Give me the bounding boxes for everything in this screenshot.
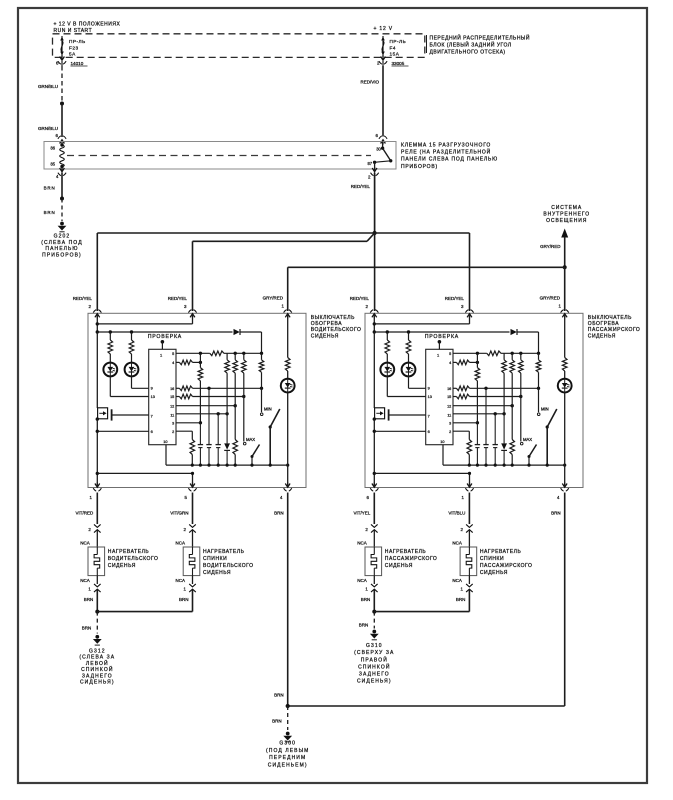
svg-text:ПРАВОЙ: ПРАВОЙ [361,655,388,663]
svg-text:ПАССАЖИРСКОГО: ПАССАЖИРСКОГО [480,563,533,569]
svg-text:ПР-ЛЬ: ПР-ЛЬ [390,39,407,44]
svg-text:СИДЕНЬЯ: СИДЕНЬЯ [480,570,508,576]
svg-text:VIT/YEL: VIT/YEL [354,511,371,516]
svg-text:F4: F4 [390,45,396,50]
passenger control IC (ПРОВЕРКА) [425,334,459,445]
svg-text:СИДЕНЬЯ: СИДЕНЬЯ [203,570,231,576]
svg-text:GRY/RED: GRY/RED [540,244,561,249]
passenger IC pin 5 line with resistor R3 [453,351,540,356]
svg-text:СПИНКИ: СПИНКИ [480,556,504,562]
label NCA [80,540,90,545]
svg-text:10: 10 [163,440,167,444]
svg-text:VIT/RED: VIT/RED [76,511,95,516]
passenger LED3 illumination [558,379,572,393]
svg-text:СПИНКОЙ: СПИНКОЙ [81,665,113,673]
svg-text:15: 15 [447,395,451,399]
passenger LED1 indicator [380,363,394,377]
wire GRN/BLU dashed from fuse F23 [38,66,62,104]
svg-text:NCA: NCA [357,540,367,545]
svg-text:BRN: BRN [361,597,371,602]
passenger IC pin 6 wire [374,430,425,432]
svg-text:5A: 5A [69,52,76,57]
driver output link wire [97,472,194,488]
wire GRY/RED bus [288,267,565,311]
svg-text:ОСВЕЩЕНИЯ: ОСВЕЩЕНИЯ [546,218,587,224]
svg-text:14010: 14010 [71,61,84,66]
passenger seat heating switch box [365,313,583,487]
passenger switch input wire labels [350,295,562,309]
passenger LED3 wire to ground rail and pin 4 [564,393,566,488]
passenger GRY/RED input resistor R15 [562,313,567,378]
label NCA [357,540,367,545]
driver internal supply rail wires [96,313,233,333]
svg-text:СПИНКИ: СПИНКИ [203,556,227,562]
driver output rail below transistor [96,417,99,487]
svg-text:11: 11 [170,413,174,417]
passenger transistor Q output driver [374,332,388,421]
svg-text:ЛЕВОЙ: ЛЕВОЙ [86,659,109,667]
svg-text:86: 86 [50,145,55,150]
splice label 14010 [71,61,88,66]
svg-text:КЛЕММА 15 РАЗГРУЗОЧНОГО: КЛЕММА 15 РАЗГРУЗОЧНОГО [401,142,491,148]
svg-text:16: 16 [170,387,174,391]
connector pin 2 below fuse F4 [377,56,387,67]
driver IC pin 5 line with resistor R3 [176,351,263,356]
wire RED/VIO fuse F4 to relay 30 [360,66,383,137]
fuse box (front distribution block) dashed outline [53,34,425,58]
svg-text:BRN: BRN [44,210,56,215]
svg-text:СПИНКОЙ: СПИНКОЙ [358,662,390,670]
driver capacitor C2 [206,388,211,465]
driver resistor R12 column [259,353,264,388]
svg-text:ПЕРЕДНИЙ РАСПРЕДЕЛИТЕЛЬНЫЙ: ПЕРЕДНИЙ РАСПРЕДЕЛИТЕЛЬНЫЙ [430,33,530,41]
svg-text:RUN И START: RUN И START [54,28,93,34]
inline connector 2 [184,524,196,547]
driver IC pin 15 line with resistor R7 [176,394,246,399]
passenger internal ground rail [443,464,566,467]
passenger resistor R14 to ground rail [510,406,515,465]
svg-text:РЕЛЕ (НА РАЗДЕЛИТЕЛЬНОЙ: РЕЛЕ (НА РАЗДЕЛИТЕЛЬНОЙ [401,148,491,156]
driver LED1 indicator [103,363,117,377]
passenger resistor R2 for LED2 [406,332,411,363]
svg-text:RED/YEL: RED/YEL [445,296,465,301]
passenger diode D1 on supply rail [511,329,539,353]
heater label [385,549,438,569]
driver GRY/RED input resistor R15 [285,313,290,378]
svg-text:BRN: BRN [551,511,561,516]
svg-text:BRN: BRN [84,597,94,602]
wire BRN below heater [179,597,189,602]
driver transistor Q output driver [97,332,111,421]
wire BRN below heater [361,597,371,602]
heater label [203,549,254,576]
svg-text:ДВИГАТЕЛЬНОГО ОТСЕКА): ДВИГАТЕЛЬНОГО ОТСЕКА) [430,50,506,56]
svg-text:ПРИБОРОВ): ПРИБОРОВ) [401,164,438,170]
passenger resistor R5 divider column [475,353,480,424]
driver resistor R1 for LED1 [108,332,113,363]
svg-text:ПАССАЖИРСКОГО: ПАССАЖИРСКОГО [385,556,438,562]
wire BRN passenger switch pin 4 [288,493,565,707]
svg-text:NCA: NCA [357,578,367,583]
passenger internal supply rail wires [373,313,510,333]
passenger MAX switch [520,437,536,465]
driver resistor R11 column [242,353,247,396]
svg-text:СИДЕНЬЯ: СИДЕНЬЯ [108,563,136,569]
passenger LED2 indicator [402,363,416,377]
passenger resistor R10 column [510,353,515,405]
svg-text:MAX: MAX [523,437,532,442]
svg-text:30: 30 [376,147,381,152]
svg-text:ВНУТРЕННЕГО: ВНУТРЕННЕГО [543,212,590,218]
driver IC pin 2 wire and resistor R8 [176,431,195,465]
driver resistor R9 column [225,353,230,414]
svg-text:НАГРЕВАТЕЛЬ: НАГРЕВАТЕЛЬ [203,549,245,555]
node splice BRN [60,197,64,201]
connector pin 2 below relay switch [368,167,379,179]
svg-text:BRN: BRN [272,718,282,723]
svg-text:BRN: BRN [359,623,369,628]
driver IC pin 4 line with resistor R4 [176,360,202,365]
inline connector 2 [365,524,377,547]
svg-text:ПРОВЕРКА: ПРОВЕРКА [148,334,182,340]
svg-text:NCA: NCA [176,578,186,583]
svg-text:NCA: NCA [452,540,462,545]
driver IC pin 10 wire to ground rail [165,445,167,465]
ground G202 [41,222,82,259]
connector pin 6 below fuse F23 [56,56,66,67]
driver IC pin 11 line [176,412,229,415]
svg-text:7: 7 [428,414,430,418]
svg-text:GRN/BLU: GRN/BLU [38,84,58,89]
wire RED/YEL branch to passenger switch pin 3 [375,233,470,311]
driver capacitor C3 [216,414,221,465]
driver IC pin 3 line [176,422,200,424]
wire BRN dashed to G312 [82,612,98,634]
interior lighting system arrow [540,205,590,267]
svg-text:G312: G312 [89,648,106,654]
svg-text:MAX: MAX [246,437,255,442]
passenger wire to MIN contact [538,388,540,412]
driver IC pin 12 line [176,404,237,407]
wire BRN below heater [84,597,94,602]
passenger zener diode D2 [501,414,507,465]
svg-text:ВОДИТЕЛЬСКОГО: ВОДИТЕЛЬСКОГО [203,563,254,569]
svg-text:11: 11 [447,413,451,417]
svg-text:13: 13 [428,395,432,399]
passenger IC pin 15 line with resistor R7 [453,394,523,399]
svg-text:NCA: NCA [452,578,462,583]
driver switch input wire labels [73,295,285,309]
svg-text:НАГРЕВАТЕЛЬ: НАГРЕВАТЕЛЬ [385,549,427,555]
node heater ground junction right [372,610,469,614]
svg-text:(СЛЕВА ЗА: (СЛЕВА ЗА [79,655,115,661]
inline connector 1 [88,576,100,612]
passenger IC pin 2 wire and resistor R8 [453,431,472,465]
svg-text:BRN: BRN [82,626,92,631]
passenger switch title label [588,315,641,340]
svg-text:GRY/RED: GRY/RED [263,295,284,300]
svg-text:НАГРЕВАТЕЛЬ: НАГРЕВАТЕЛЬ [108,549,150,555]
driver resistor R10 column [233,353,238,405]
svg-text:13: 13 [151,395,155,399]
svg-text:BRN: BRN [274,693,284,698]
svg-text:MIN: MIN [264,407,272,412]
heater element НАГРЕВАТЕЛЬ [365,547,382,576]
svg-text:RED/YEL: RED/YEL [168,296,188,301]
wire RED/YEL relay to junction [351,173,375,234]
svg-text:85: 85 [50,162,55,167]
driver resistor R2 for LED2 [129,332,134,363]
driver IC pin 6 wire [97,430,148,432]
svg-text:ЗАДНЕГО: ЗАДНЕГО [359,672,390,678]
wire GRN/BLU to relay coil 86 [38,104,62,138]
driver zener diode D2 [224,414,230,465]
passenger switch top connectors [370,310,569,319]
inline connector 2 [88,524,100,547]
svg-text:3: 3 [172,422,174,426]
svg-text:БЛОК (ЛЕВЫЙ ЗАДНИЙ УГОЛ: БЛОК (ЛЕВЫЙ ЗАДНИЙ УГОЛ [430,40,512,48]
svg-text:СИДЕНЬЕМ): СИДЕНЬЕМ) [268,763,308,769]
node RED/YEL junction [373,231,377,235]
driver switch title label [311,315,362,340]
passenger LED2 wire to IC pin 9 [409,376,426,388]
svg-text:VIT/GRN: VIT/GRN [170,511,188,516]
driver LED3 wire to ground rail and pin 4 [287,393,289,488]
wire BRN driver switch pin 4 to G300 [274,493,288,707]
svg-text:F23: F23 [69,45,79,50]
driver LED2 wire to IC pin 9 [132,376,149,388]
svg-text:ПР-ЛЬ: ПР-ЛЬ [69,39,86,44]
passenger IC pin 12 line [453,404,514,407]
heater element НАГРЕВАТЕЛЬ [460,547,477,576]
svg-text:+ 12 V: + 12 V [374,26,393,32]
svg-text:ВЫКЛЮЧАТЕЛЬ: ВЫКЛЮЧАТЕЛЬ [311,315,355,321]
svg-text:ЗАДНЕГО: ЗАДНЕГО [82,673,113,679]
svg-text:MIN: MIN [541,407,549,412]
svg-text:ВОДИТЕЛЬСКОГО: ВОДИТЕЛЬСКОГО [311,327,362,333]
svg-text:15: 15 [170,395,174,399]
node splice GRN/BLU [60,102,64,106]
svg-text:G300: G300 [279,741,296,747]
svg-text:NCA: NCA [176,540,186,545]
svg-text:3: 3 [449,422,451,426]
svg-text:6: 6 [428,430,430,434]
wire BRN relay coil to ground [44,173,62,199]
driver control IC (ПРОВЕРКА) [148,334,182,445]
wire VIT/BLU to heater [448,493,469,525]
svg-text:СИДЕНЬЯ: СИДЕНЬЯ [311,333,339,339]
svg-text:СИДЕНЬЯ): СИДЕНЬЯ) [357,679,392,685]
passenger LED1 wire to IC pin 13 [387,376,425,396]
svg-text:ВЫКЛЮЧАТЕЛЬ: ВЫКЛЮЧАТЕЛЬ [588,315,632,321]
node G300 junction [286,704,290,708]
wire RED/YEL branch to driver switch pin 2 [97,233,374,311]
svg-text:9: 9 [428,387,430,391]
label NCA [452,578,462,583]
passenger MIN switch [537,407,556,465]
driver diode D1 on supply rail [234,329,262,353]
svg-text:2: 2 [172,430,174,434]
passenger capacitor C1 [475,423,480,465]
passenger resistor R11 column [519,353,524,396]
svg-text:16: 16 [447,387,451,391]
label NCA [452,540,462,545]
driver LED2 indicator [125,363,139,377]
passenger resistor R9 column [502,353,507,414]
svg-text:33005: 33005 [392,61,405,66]
relay K (terminal 15 unloader relay) box [44,142,396,170]
label NCA [176,540,186,545]
svg-text:5: 5 [449,352,451,356]
svg-text:NCA: NCA [80,578,90,583]
svg-text:5: 5 [172,352,174,356]
svg-text:RED/YEL: RED/YEL [73,296,93,301]
driver capacitor C1 [198,423,203,465]
svg-text:G202: G202 [54,234,71,240]
fuse F23 5A [60,36,86,57]
connector pin 6 at relay coil top [56,133,67,145]
driver switch bottom pin numbers [90,495,284,500]
wire BRN below heater [456,597,466,602]
passenger IC pin 16 line with resistor R6 [453,386,540,391]
svg-text:15A: 15A [390,52,400,57]
svg-text:ПАССАЖИРСКОГО: ПАССАЖИРСКОГО [588,327,641,333]
ground G312 [79,635,115,686]
heater label [108,549,159,569]
heater element НАГРЕВАТЕЛЬ [88,547,105,576]
driver resistor R14 to ground rail [233,406,238,465]
ground G300 [266,732,309,769]
svg-text:(СЛЕВА ПОД: (СЛЕВА ПОД [41,240,82,246]
svg-text:ОБОГРЕВА: ОБОГРЕВА [311,321,342,327]
svg-text:BRN: BRN [179,597,189,602]
label NCA [176,578,186,583]
wire RED/YEL to passenger switch pin 2 [374,233,376,311]
passenger capacitor C3 [493,414,498,465]
svg-text:СИДЕНЬЯ: СИДЕНЬЯ [588,333,616,339]
connector pin 6 at relay top [376,133,388,145]
svg-text:12: 12 [447,404,451,408]
passenger IC pin 10 wire to ground rail [442,445,444,465]
svg-text:RED/YEL: RED/YEL [350,296,370,301]
node GRY/RED junction [563,265,567,269]
svg-text:10: 10 [440,440,444,444]
svg-text:GRY/RED: GRY/RED [540,295,561,300]
svg-text:BRN: BRN [456,597,466,602]
inline connector 1 [460,576,472,612]
node +12V right [374,26,393,32]
svg-text:(СВЕРХУ ЗА: (СВЕРХУ ЗА [354,650,394,656]
svg-text:СИДЕНЬЯ): СИДЕНЬЯ) [80,680,115,686]
connector pin 4 below relay coil [56,167,66,179]
svg-text:VIT/BLU: VIT/BLU [448,511,465,516]
svg-text:ПАНЕЛИ СЛЕВА ПОД ПАНЕЛЬЮ: ПАНЕЛИ СЛЕВА ПОД ПАНЕЛЬЮ [401,157,498,163]
svg-text:ПАНЕЛЬЮ: ПАНЕЛЬЮ [45,246,78,252]
wire VIT/YEL to heater [354,493,375,525]
driver IC pin 7 gate wire [112,414,149,416]
passenger resistor R13 to MAX contact [520,397,522,442]
node heater ground junction left [95,610,192,614]
wire BRN dashed to G310 [359,612,375,629]
wire BRN dashed to G202 [44,199,62,222]
svg-text:(ПОД ЛЕВЫМ: (ПОД ЛЕВЫМ [266,748,309,754]
node +12V RUN/START label [54,22,121,34]
driver internal ground rail [166,464,289,467]
splice label 33005 [392,61,409,66]
svg-text:6: 6 [151,430,153,434]
driver MAX switch [243,437,259,465]
driver resistor R13 to MAX contact [243,397,245,442]
svg-text:BRN: BRN [274,511,284,516]
driver seat heating switch box [88,313,306,487]
passenger output link wire [374,472,471,488]
driver MIN switch [260,407,279,465]
front distribution block label [427,33,530,55]
driver wire to MIN contact [261,388,263,412]
svg-text:GRN/BLU: GRN/BLU [38,126,58,131]
ground G310 [354,630,394,685]
passenger resistor R12 column [536,353,541,388]
svg-text:СИСТЕМА: СИСТЕМА [551,205,582,211]
fuse F4 15A [381,36,406,57]
driver switch bottom connectors [93,483,292,492]
svg-text:2: 2 [449,430,451,434]
passenger capacitor C2 [483,388,488,465]
passenger IC pin 3 line [453,422,477,424]
passenger IC pin 7 gate wire [389,414,426,416]
driver LED3 illumination [281,379,295,393]
wire BRN dashed to G300 [272,706,288,730]
passenger IC pin 4 line with resistor R4 [453,360,479,365]
passenger IC pin 11 line [453,412,506,415]
inline connector 2 [460,524,472,547]
passenger switch bottom pin numbers [367,495,561,500]
svg-text:СИДЕНЬЯ: СИДЕНЬЯ [385,563,413,569]
passenger switch bottom connectors [370,483,569,492]
svg-text:G310: G310 [366,643,383,649]
inline connector 1 [365,576,377,612]
passenger resistor R1 for LED1 [385,332,390,363]
svg-text:RED/VIO: RED/VIO [360,80,379,85]
svg-text:+ 12 V В ПОЛОЖЕНИЯХ: + 12 V В ПОЛОЖЕНИЯХ [54,22,121,28]
svg-text:4: 4 [172,361,174,365]
driver IC pin 16 line with resistor R6 [176,386,263,391]
label NCA [80,578,90,583]
svg-text:ПРИБОРОВ): ПРИБОРОВ) [42,253,82,259]
svg-text:ОБОГРЕВА: ОБОГРЕВА [588,321,619,327]
svg-text:4: 4 [449,361,451,365]
relay coil 86-85 [50,143,64,168]
svg-text:BRN: BRN [44,185,56,190]
relay switch 30-87 [367,142,392,170]
heater element НАГРЕВАТЕЛЬ [183,547,200,576]
svg-text:9: 9 [151,387,153,391]
driver switch top connectors [93,310,292,319]
svg-text:7: 7 [151,414,153,418]
svg-text:12: 12 [170,404,174,408]
inline connector 1 [184,576,196,612]
svg-text:НАГРЕВАТЕЛЬ: НАГРЕВАТЕЛЬ [480,549,522,555]
svg-text:ПЕРЕДНИМ: ПЕРЕДНИМ [269,755,306,761]
passenger output rail below transistor [373,417,376,487]
wire VIT/RED to heater [76,493,98,525]
relay description label [401,142,498,170]
svg-text:ПРОВЕРКА: ПРОВЕРКА [425,334,459,340]
wire RED/YEL branch to driver switch pin 3 [193,233,375,311]
svg-text:87: 87 [367,161,372,166]
svg-text:NCA: NCA [80,540,90,545]
heater label [480,549,533,576]
